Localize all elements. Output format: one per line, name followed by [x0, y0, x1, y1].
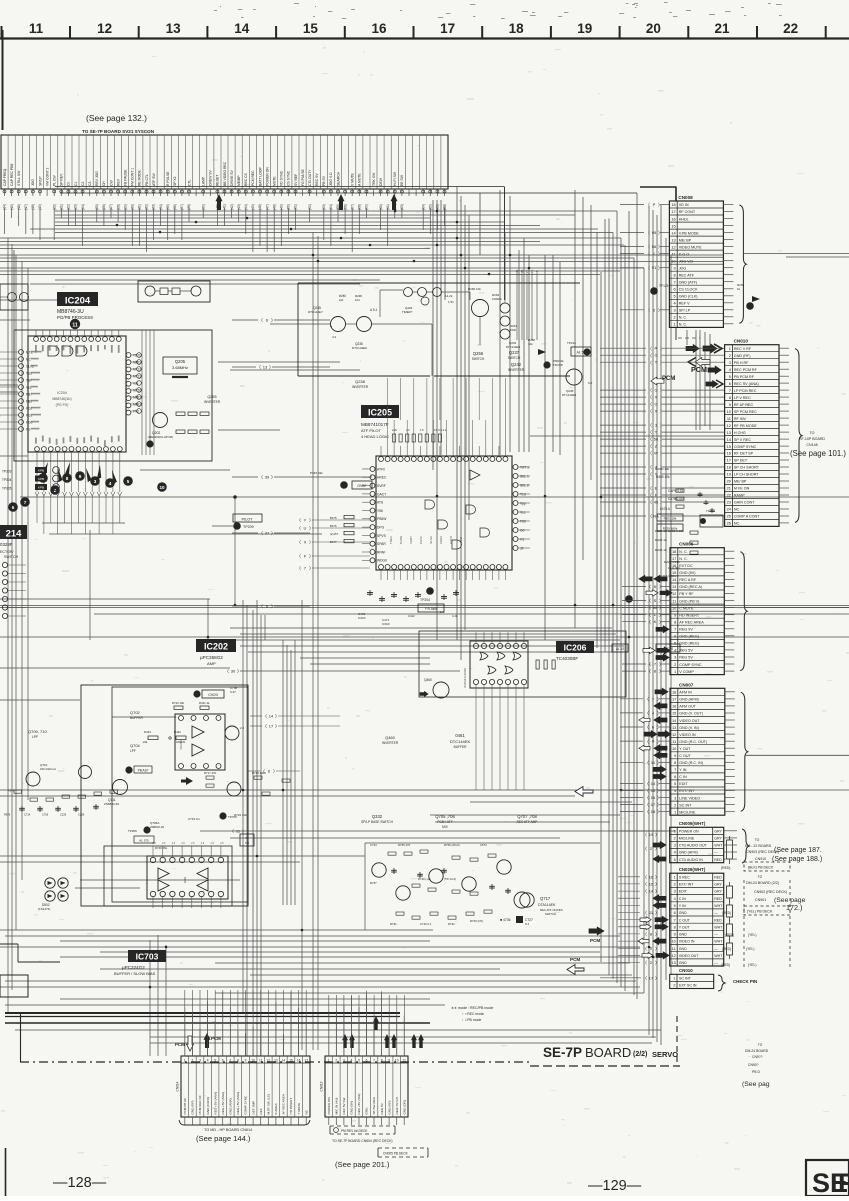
board boundary dashed line [20, 1061, 530, 1063]
svg-text:P.9.5kB: P.9.5kB [425, 607, 437, 611]
svg-text:GND (DR): GND (DR) [402, 1100, 406, 1114]
svg-text:⟨: ⟨ [299, 554, 301, 559]
svg-text:J2: J2 [520, 546, 524, 550]
svg-text:(4): (4) [535, 270, 539, 273]
svg-text:2: 2 [673, 984, 675, 988]
svg-text:25: 25 [727, 514, 731, 519]
svg-text:12: 12 [727, 423, 731, 428]
svg-text:REG 5V: REG 5V [679, 656, 693, 660]
network internal wires [270, 323, 330, 325]
svg-text:C2: C2 [81, 182, 85, 186]
svg-text:GRY: GRY [714, 830, 722, 834]
diode bridge D502 [45, 878, 55, 888]
svg-text:⟨: ⟨ [650, 388, 652, 393]
svg-text:P: P [653, 202, 656, 207]
svg-text:10: 10 [395, 1059, 399, 1063]
resistor R444 R442 [148, 736, 158, 740]
svg-text:⟨: ⟨ [647, 725, 649, 730]
svg-text:7: 7 [674, 767, 676, 772]
svg-text:17: 17 [727, 458, 731, 463]
vertical wires into CN014 from schematic [184, 990, 186, 1056]
svg-text:C1: C1 [74, 182, 78, 186]
bottom right SERVO section box [806, 1160, 849, 1196]
svg-text:⟨: ⟨ [648, 202, 650, 207]
resistor network R224-R227 bottom left of CN010 [676, 489, 684, 492]
delay element pair box top-left [138, 281, 210, 302]
svg-text:G: G [654, 388, 657, 393]
svg-text:15: 15 [672, 570, 676, 575]
svg-text:LP CH SHORT: LP CH SHORT [734, 473, 759, 477]
svg-text:R PULSE: R PULSE [166, 171, 170, 186]
svg-text:RF DET SP: RF DET SP [734, 452, 754, 456]
IC703 triangles [158, 868, 169, 879]
svg-text:⟨: ⟨ [649, 612, 651, 617]
svg-text:D.G.O.: D.G.O. [679, 252, 690, 256]
svg-text:3.68MHz: 3.68MHz [172, 365, 188, 370]
svg-text:17: 17 [649, 975, 654, 980]
svg-text:EXT/ INT: EXT/ INT [679, 883, 695, 887]
svg-text:3: 3 [674, 655, 676, 660]
svg-text:DEW: DEW [379, 177, 383, 186]
svg-text:⟨: ⟨ [645, 932, 647, 937]
vertical wires into CN013 from schematic [328, 995, 330, 1056]
svg-text:RF AF REC: RF AF REC [734, 403, 754, 407]
svg-text:16: 16 [672, 704, 676, 709]
svg-text:5: 5 [214, 1059, 216, 1063]
svg-text:13: 13 [672, 725, 676, 730]
svg-text:23: 23 [727, 500, 731, 505]
svg-text:C OUT: C OUT [679, 918, 691, 922]
svg-text:REC A RF: REC A RF [679, 578, 697, 582]
grid ruler line [0, 37, 849, 39]
upper bus corner verticals [504, 187, 506, 301]
svg-text:13: 13 [671, 237, 675, 242]
svg-text:(RED): (RED) [721, 963, 730, 967]
bottom connector CN013 bottom stubs [328, 1117, 330, 1125]
svg-text:SVDG: SVDG [399, 535, 403, 544]
svg-text:⟩: ⟩ [309, 566, 311, 571]
svg-text:⟩: ⟩ [273, 769, 275, 774]
svg-text:KPB: KPB [38, 486, 44, 490]
transistor Q202 DEMODULATOR [153, 413, 168, 428]
svg-text:12: 12 [267, 1059, 271, 1063]
svg-text:⟨: ⟨ [265, 714, 267, 719]
svg-text:C716 0.1: C716 0.1 [420, 922, 432, 926]
svg-text:⟨: ⟨ [650, 514, 652, 519]
dashed box YEL PB DECK [744, 906, 790, 915]
svg-text:Q704: Q704 [130, 743, 141, 748]
svg-text:16: 16 [649, 874, 654, 879]
svg-text:RF-10P BOARD: RF-10P BOARD [799, 437, 825, 441]
svg-text:6: 6 [674, 774, 676, 779]
svg-text:14: 14 [282, 1059, 286, 1063]
svg-text:⟨: ⟨ [261, 531, 263, 536]
IC703 top pin row [150, 857, 155, 862]
svg-text:RF PB MODE: RF PB MODE [734, 424, 757, 428]
svg-text:SP PCM REC: SP PCM REC [734, 410, 757, 414]
svg-text:37: 37 [265, 531, 270, 536]
svg-text:PB CTL: PB CTL [145, 174, 149, 186]
svg-text:⟩: ⟩ [271, 318, 273, 323]
svg-text:WHT: WHT [714, 940, 723, 944]
svg-text:⟨: ⟨ [647, 795, 649, 800]
transistor Q703 [225, 726, 239, 740]
svg-text:SP CH SHORT: SP CH SHORT [734, 466, 760, 470]
svg-text:NC: NC [304, 1109, 308, 1114]
svg-text:CS SYNC: CS SYNC [287, 170, 291, 186]
arrow marker up C [391, 194, 398, 210]
svg-text:µPC358G2: µPC358G2 [200, 655, 223, 660]
svg-text:16: 16 [297, 1059, 301, 1063]
svg-text:CS CLOCK: CS CLOCK [679, 288, 698, 292]
svg-text:REG +5V (ANA): REG +5V (ANA) [236, 1092, 240, 1114]
svg-text:↑ ↑:REC mode: ↑ ↑:REC mode [462, 1012, 484, 1016]
svg-text:9: 9 [79, 474, 82, 479]
connector CN008 outline [669, 201, 723, 327]
svg-text:IC204: IC204 [57, 391, 67, 395]
svg-text:GND (5V): GND (5V) [350, 1101, 354, 1115]
svg-text:WHT: WHT [714, 925, 723, 929]
svg-text:H CHG: H CHG [734, 431, 746, 435]
svg-text:9: 9 [245, 1059, 247, 1063]
svg-text:GND (5V): GND (5V) [679, 571, 695, 575]
svg-text:M.RF SW (LS): M.RF SW (LS) [267, 1094, 271, 1114]
svg-text:EXT DC: EXT DC [679, 564, 693, 568]
svg-text:PCM REC: PCM REC [251, 170, 255, 186]
IC202 label [196, 639, 236, 652]
svg-text:5: 5 [127, 479, 130, 484]
section box Q235 Q236 network [298, 282, 580, 284]
svg-text:AL 575: AL 575 [139, 839, 149, 843]
svg-text:⟩: ⟩ [657, 711, 659, 716]
svg-text:⟨: ⟨ [232, 829, 234, 834]
clock oscillator Q205 3.68MHz [163, 357, 197, 374]
svg-text:SB SW REG: SB SW REG [372, 1096, 376, 1114]
grid ruler ticks [1, 26, 3, 38]
svg-text:⟩: ⟩ [660, 444, 662, 449]
svg-text:—128—: —128— [53, 1175, 107, 1191]
svg-text:⟨: ⟨ [650, 360, 652, 365]
svg-text:AFM IN: AFM IN [679, 691, 692, 695]
svg-text:11: 11 [72, 322, 78, 328]
svg-text:HD INSERT: HD INSERT [679, 613, 700, 617]
svg-text:RESET: RESET [216, 175, 220, 186]
svg-text:TP303: TP303 [2, 470, 12, 474]
svg-text:E: E [655, 486, 658, 491]
svg-text:W: W [653, 605, 657, 610]
svg-text:⟩: ⟩ [657, 739, 659, 744]
svg-text:8: 8 [381, 1059, 383, 1063]
AT/TO box [240, 834, 254, 846]
black test point TP201 [146, 440, 153, 447]
svg-text:T1X: T1X [520, 492, 527, 496]
svg-text:⟨: ⟨ [647, 739, 649, 744]
transistor Q461 by IC206 [433, 682, 449, 698]
svg-text:⟩: ⟩ [658, 202, 660, 207]
svg-text:ME/ BP: ME/ BP [679, 238, 692, 242]
svg-text:REG +5V (ANA): REG +5V (ANA) [213, 1092, 217, 1114]
svg-text:100k01: 100k01 [492, 297, 502, 301]
svg-text:—: — [714, 961, 718, 965]
svg-text:REC SV (ANA): REC SV (ANA) [734, 382, 759, 386]
connector CN010 right stub wires [779, 347, 789, 349]
svg-text:⟨: ⟨ [650, 409, 652, 414]
IC202 op-amp body [175, 714, 225, 770]
bottom connector CN013 cells [332, 1056, 334, 1117]
svg-text:45: 45 [654, 500, 659, 505]
svg-text:TO: TO [758, 875, 763, 879]
svg-text:2: 2 [192, 1059, 194, 1063]
svg-text:⟩: ⟩ [660, 388, 662, 393]
svg-text:EDIT: EDIT [679, 782, 688, 786]
svg-text:INVERTER: INVERTER [204, 400, 221, 404]
svg-text:⟨: ⟨ [648, 244, 650, 249]
svg-text:⟨: ⟨ [650, 472, 652, 477]
svg-text:TP204: TP204 [420, 598, 430, 602]
svg-text:⟨: ⟨ [648, 307, 650, 312]
svg-text:(See page 132.): (See page 132.) [86, 113, 147, 123]
svg-text:I: I [653, 251, 654, 256]
svg-text:VM CONT 2: VM CONT 2 [45, 167, 49, 186]
svg-text:1.51: 1.51 [448, 300, 454, 304]
svg-text:⟨: ⟨ [650, 465, 652, 470]
svg-text:GRY: GRY [714, 883, 722, 887]
bottom left frame lines [20, 1013, 22, 1062]
svg-text:0.1: 0.1 [525, 922, 530, 926]
IC206 bottom pin drop wires [475, 696, 477, 790]
svg-text:30: 30 [231, 669, 236, 674]
svg-text:1k: 1k [737, 287, 741, 291]
svg-text:VIDEO IN: VIDEO IN [679, 733, 696, 737]
svg-text:2: 2 [335, 1059, 337, 1063]
svg-text:GND: GND [679, 961, 687, 965]
svg-text:N. C.: N. C. [679, 557, 687, 561]
IC204 bottom pin row [35, 447, 40, 452]
svg-text:RPAF: RPAF [377, 550, 386, 554]
svg-text:RED: RED [714, 875, 722, 879]
svg-text:R876: R876 [8, 789, 15, 793]
svg-text:15: 15 [671, 223, 675, 228]
svg-text:(See page 201.): (See page 201.) [335, 1160, 390, 1169]
svg-text:SC INT: SC INT [679, 977, 692, 981]
svg-text:⟩: ⟩ [309, 540, 311, 545]
svg-text:PB A1F: PB A1F [138, 769, 149, 773]
svg-text:EDIT: EDIT [679, 890, 688, 894]
svg-text:(YEL) PB DECK: (YEL) PB DECK [747, 910, 773, 914]
capacitor cluster below-left of IC205 [369, 590, 371, 596]
svg-text:STILL SW: STILL SW [17, 170, 21, 186]
svg-text:GND (V. OUT): GND (V. OUT) [679, 712, 703, 716]
svg-text:GND: GND [679, 911, 687, 915]
svg-text:SEL 1: SEL 1 [520, 474, 529, 478]
svg-text:SEL 2: SEL 2 [520, 483, 529, 487]
upper horizontal bus band [55, 186, 504, 188]
arrows above CN013 [342, 1034, 348, 1048]
svg-text:3: 3 [674, 795, 676, 800]
transistor Q706 mid [227, 782, 241, 796]
svg-text:⟨: ⟨ [299, 540, 301, 545]
dashed box CN005 PB DECK [378, 1147, 428, 1149]
svg-text:4: 4 [207, 1059, 209, 1063]
IC206 body [470, 641, 528, 688]
svg-text:TO: TO [755, 838, 760, 842]
IC703 bottom pin row [150, 891, 155, 896]
svg-text:2SB822-36: 2SB822-36 [150, 825, 164, 829]
svg-text:18: 18 [509, 21, 525, 36]
svg-text:⟩: ⟩ [660, 437, 662, 442]
svg-text:NC: NC [734, 522, 740, 526]
svg-text:REC ATF AMP: REC ATF AMP [517, 820, 538, 824]
svg-text:AF REC AREA: AF REC AREA [282, 1093, 286, 1114]
svg-text:CTD AUDIO IN: CTD AUDIO IN [679, 858, 704, 862]
svg-text:C226: C226 [60, 813, 67, 817]
svg-text:13: 13 [263, 365, 268, 370]
svg-text:PCM REC RF: PCM REC RF [198, 1095, 202, 1114]
svg-text:5: 5 [674, 641, 676, 646]
svg-text:GND: GND [365, 1107, 369, 1115]
svg-text:7: 7 [229, 1059, 231, 1063]
svg-text:S: S [654, 598, 657, 603]
svg-text:DM-24 BOARD (2/2): DM-24 BOARD (2/2) [746, 881, 779, 885]
svg-text:(YEL): (YEL) [748, 963, 756, 967]
svg-text:GND (REG): GND (REG) [679, 642, 699, 646]
quad op-amp IC703 body [147, 856, 228, 899]
svg-text:⟩: ⟩ [657, 788, 659, 793]
svg-text:SERVO: SERVO [652, 1050, 678, 1059]
svg-text:⟩: ⟩ [660, 500, 662, 505]
svg-text:B477: B477 [330, 540, 337, 544]
svg-text:⟨: ⟨ [650, 402, 652, 407]
Q202 section verticals [141, 330, 143, 455]
svg-text:⟩: ⟩ [660, 451, 662, 456]
svg-text:12: 12 [672, 591, 676, 596]
svg-text:DTC144EB: DTC144EB [506, 345, 520, 349]
resistor boxes near Q706 [206, 776, 214, 779]
svg-text:C IN: C IN [679, 775, 687, 779]
svg-text:BOARD: BOARD [585, 1045, 631, 1060]
svg-text:GRY: GRY [714, 837, 722, 841]
svg-text:RED: RED [714, 897, 722, 901]
svg-text:⟩: ⟩ [659, 584, 661, 589]
svg-text:⟨: ⟨ [650, 451, 652, 456]
svg-text:3: 3 [343, 1059, 345, 1063]
svg-text:CN008: CN008 [678, 195, 693, 200]
svg-text:VIDEO IN: VIDEO IN [679, 940, 695, 944]
svg-text:⟩: ⟩ [660, 395, 662, 400]
svg-text:R501 18k: R501 18k [664, 517, 677, 521]
svg-text:R732: R732 [448, 922, 455, 926]
svg-text:H1: H1 [520, 537, 524, 541]
svg-text:GND: GND [183, 877, 187, 883]
svg-text:LP PCM REC: LP PCM REC [734, 389, 757, 393]
svg-text:12: 12 [672, 732, 676, 737]
svg-text:0.003: 0.003 [382, 622, 390, 626]
svg-text:12: 12 [97, 21, 112, 36]
transistor Q717 with arrow [514, 892, 530, 908]
svg-text:⟩: ⟩ [242, 829, 244, 834]
svg-text:101: 101 [355, 298, 360, 302]
svg-text:REC ATF: REC ATF [679, 273, 695, 277]
svg-text:172.): 172.) [786, 903, 802, 912]
svg-text:Y: Y [304, 518, 307, 523]
svg-text:R723 10k: R723 10k [172, 701, 185, 705]
svg-text:CN901: CN901 [755, 898, 766, 902]
transistor Q711 [113, 780, 128, 795]
svg-text:Y MUTE: Y MUTE [297, 1103, 301, 1115]
connector CN007 right brace [741, 692, 748, 811]
svg-text:2SC1423-LA: 2SC1423-LA [40, 767, 56, 771]
svg-text:C734: C734 [370, 843, 377, 847]
transistor Q245 with test point TP124 [566, 369, 582, 385]
svg-text:Q705 ,706: Q705 ,706 [435, 814, 455, 819]
svg-text:11: 11 [29, 21, 44, 36]
svg-text:A 5.1: A 5.1 [370, 308, 377, 312]
svg-text:(RED): (RED) [722, 947, 731, 951]
IC206 gates [480, 652, 488, 660]
svg-text:Vpp: Vpp [520, 501, 526, 505]
svg-text:HHDL: HHDL [679, 217, 689, 221]
svg-text:⟨: ⟨ [650, 353, 652, 358]
svg-text:SWITCH: SWITCH [545, 912, 556, 916]
svg-text:2.2k: 2.2k [392, 428, 398, 432]
svg-text:RAMP: RAMP [734, 494, 745, 498]
svg-text:⟨: ⟨ [650, 430, 652, 435]
svg-text:18: 18 [671, 202, 675, 207]
connector CN006 right brace [740, 552, 747, 671]
svg-text:17: 17 [651, 802, 656, 807]
svg-text:µPC324G2: µPC324G2 [122, 965, 145, 970]
svg-text:⟩: ⟩ [657, 802, 659, 807]
svg-text:R756 (45+5): R756 (45+5) [444, 843, 460, 847]
bottom connector CN013 top wires [328, 1011, 330, 1056]
left edge component box with bubbles [0, 284, 28, 310]
svg-text:REF: REF [259, 1108, 263, 1114]
svg-text:VD SYNC: VD SYNC [280, 170, 284, 186]
svg-text:AFM OUT: AFM OUT [679, 705, 696, 709]
svg-text:FG: FG [26, 427, 31, 431]
svg-text:CN009(WHT): CN009(WHT) [679, 821, 706, 826]
svg-text:1.0: 1.0 [440, 610, 444, 614]
IC205 body [376, 456, 512, 570]
svg-text:R875: R875 [4, 813, 11, 817]
svg-text:GND (AFM): GND (AFM) [679, 851, 698, 855]
svg-text:2: 2 [674, 315, 676, 320]
svg-text:—: — [714, 851, 718, 855]
svg-text:CN013: CN013 [320, 1081, 324, 1091]
svg-text:⟨: ⟨ [649, 605, 651, 610]
svg-text:⟩: ⟩ [271, 604, 273, 609]
svg-text:N. C.: N. C. [679, 316, 687, 320]
svg-text:(See page 187.: (See page 187. [774, 847, 822, 854]
svg-text:8: 8 [66, 476, 69, 481]
svg-text:N. C.: N. C. [679, 323, 687, 327]
svg-text:TRK SW: TRK SW [372, 172, 376, 186]
svg-text:P345 43k: P345 43k [310, 471, 323, 475]
svg-text:R225 1k: R225 1k [655, 538, 667, 542]
svg-text:GND (R.C. IN): GND (R.C. IN) [679, 761, 703, 765]
svg-text:(DEMODULATOR): (DEMODULATOR) [148, 435, 173, 439]
IC703 label [128, 950, 166, 962]
svg-text:15: 15 [672, 711, 676, 716]
svg-text:11: 11 [403, 1059, 407, 1063]
connector CN006 exit wire right [744, 607, 849, 609]
svg-text:⟩: ⟩ [660, 353, 662, 358]
svg-text:GRY: GRY [714, 890, 722, 894]
svg-text:V MUTE: V MUTE [351, 172, 355, 186]
svg-text:C IN: C IN [679, 897, 687, 901]
test point TP206 [143, 826, 150, 833]
svg-text:14: 14 [651, 781, 656, 786]
